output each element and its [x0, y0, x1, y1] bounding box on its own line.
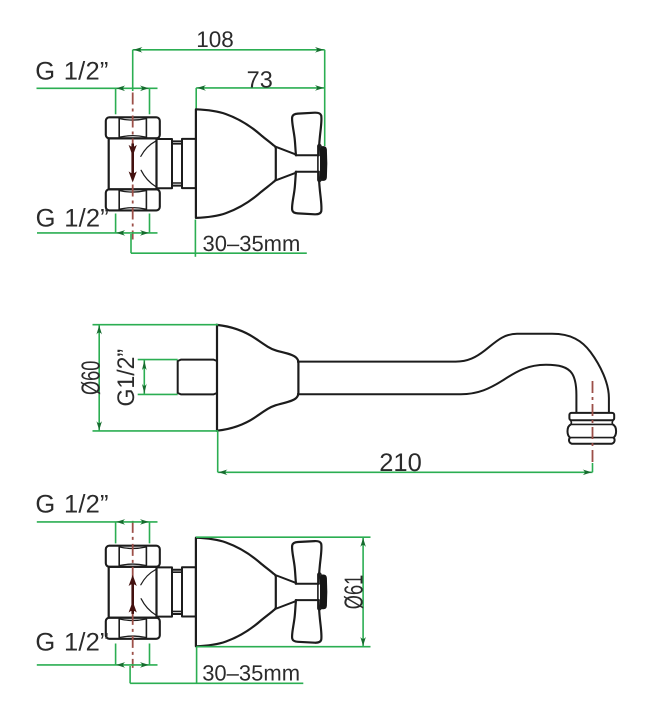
svg-text:G1/2”: G1/2”: [113, 349, 140, 407]
valve V1 (top) body+handle: [106, 109, 327, 218]
svg-text:30–35mm: 30–35mm: [202, 661, 300, 686]
svg-text:210: 210: [379, 449, 422, 477]
svg-text:Ø60: Ø60: [76, 361, 106, 395]
spout flange (wall escutcheon): [217, 325, 298, 431]
centerline valve V1: [132, 93, 134, 240]
dimension 210 (spout reach): [218, 431, 593, 477]
spout aerator tip: [568, 413, 617, 444]
svg-text:30–35mm: 30–35mm: [203, 231, 301, 256]
svg-text:Ø61: Ø61: [339, 575, 369, 609]
svg-text:1/2”: 1/2”: [64, 491, 109, 519]
dimension G1/2 (shank thread): [113, 349, 178, 407]
dimension 30-35mm (bottom valve wall depth): [130, 647, 303, 686]
dimension diameter 60: [76, 325, 219, 431]
svg-text:G: G: [35, 58, 55, 86]
svg-text:108: 108: [196, 27, 234, 52]
svg-text:73: 73: [247, 66, 273, 92]
svg-text:G: G: [35, 629, 55, 657]
dimension diameter 61 (escutcheon OD): [196, 537, 371, 647]
label G 1/2 inch lower-left of valve V2: [35, 629, 157, 668]
label G 1/2 inch upper-left of valve V2: [35, 491, 157, 544]
label G 1/2 inch lower-left of valve V1: [36, 205, 158, 236]
centerline valve V2: [132, 521, 134, 668]
spout tube with S-bend: [297, 334, 609, 413]
svg-text:1/2”: 1/2”: [64, 629, 109, 657]
spout threaded shank G1/2: [178, 360, 217, 395]
svg-text:1/2”: 1/2”: [64, 58, 109, 86]
valve V2 (bottom) body+handle: [106, 538, 327, 647]
dimension 108: [133, 27, 325, 146]
svg-text:1/2”: 1/2”: [64, 205, 109, 233]
svg-text:G: G: [36, 205, 56, 233]
centerline aerator: [592, 381, 594, 462]
flow arrow (down) valve V1: [129, 144, 137, 183]
dimension 73: [196, 66, 325, 109]
flow arrow (up) valve V2: [129, 575, 137, 614]
label G 1/2 inch top-left: [35, 58, 157, 115]
svg-text:G: G: [35, 491, 55, 519]
dimension 30-35mm (top valve wall depth): [131, 220, 307, 257]
